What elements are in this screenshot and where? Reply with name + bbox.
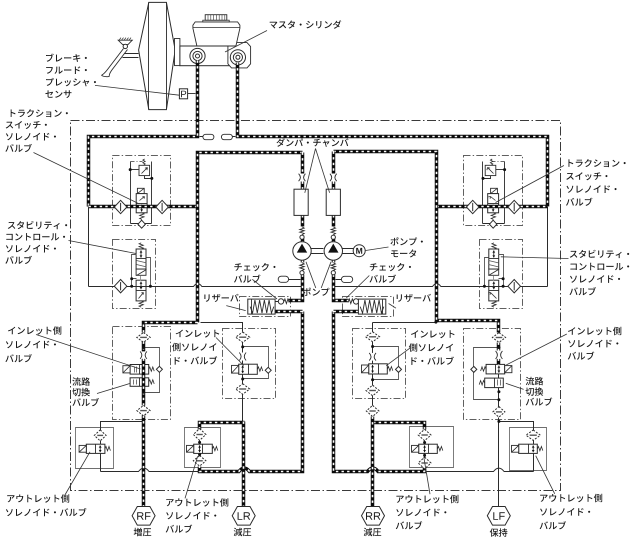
node: LR outlet links [198, 441, 201, 444]
label: inlet solenoid valve center left [176, 330, 219, 338]
outlet valve group box RF [76, 428, 114, 469]
check diamond below traction valve left [138, 220, 145, 228]
check valve right (spring and ball) [348, 299, 353, 304]
flow switching valve RF - body [130, 378, 149, 387]
orifice on left damper line [300, 174, 304, 182]
label: traction switch solenoid valve left [11, 109, 68, 117]
wire: RR outlet internal links [424, 441, 426, 458]
outlet valve group box RR [410, 427, 454, 468]
wheel port LF hexagon [487, 507, 510, 526]
label: check valve left [234, 263, 275, 271]
label: master cylinder [270, 20, 342, 29]
label: pump [303, 288, 330, 296]
outlet diamond RR upper [418, 429, 431, 440]
label: brake fluid pressure sensor [46, 54, 87, 62]
wire: RR inlet tap down to diamond [372, 323, 374, 332]
label: pump motor [391, 237, 423, 245]
master cylinder reservoir tank [193, 22, 240, 46]
label: flow switching valve left [72, 377, 90, 385]
reservoir outer box right [343, 297, 394, 317]
pressure line: RF branch from rail corner [144, 323, 198, 333]
check valve left (ball and spring) [278, 299, 283, 304]
inlet solenoid valve RR - body [369, 364, 388, 374]
wire: LR inlet tap from rail [201, 323, 243, 332]
wheel port LR hexagon [232, 507, 255, 526]
inlet filter diamond RR [366, 332, 380, 342]
spring below left pump [300, 263, 304, 271]
damper capsule 1 [203, 134, 214, 139]
stability control valve group box right [480, 240, 523, 309]
inlet valve group box RF [113, 327, 171, 420]
label: reservoir right [397, 294, 431, 302]
label: LF pressure hold [490, 528, 508, 537]
label: inlet solenoid valve center right [411, 330, 455, 338]
label: flow switching valve right [526, 377, 544, 385]
bypass check diamond LR [265, 367, 271, 373]
reservoir filler cap [203, 20, 229, 22]
wire: RF outlet tap [101, 422, 144, 472]
wire: pump to motor coupling shafts [311, 249, 354, 254]
bypass check diamond RR [396, 366, 402, 372]
pressure line: right damper chamber column [332, 152, 336, 174]
inlet valve group box LF [464, 329, 521, 420]
label: traction switch solenoid valve right [568, 159, 625, 167]
orifice on LF inlet line [497, 351, 501, 359]
traction switch solenoid valve right - body and relief valve [483, 162, 505, 224]
node: RR outlet links [423, 441, 426, 444]
master cylinder right end cap [228, 43, 251, 68]
pump motor M [353, 245, 365, 257]
inlet valve RR bypass line [373, 347, 399, 380]
master cylinder primary outlet port [190, 48, 205, 63]
spring below right damper chamber [331, 227, 335, 235]
bottom diamond RR upper [366, 385, 379, 396]
pressure line: left damper to pump [301, 182, 305, 243]
brake booster body [139, 2, 176, 109]
outlet valve group box LF [510, 428, 547, 471]
bottom diamond RF [137, 405, 150, 416]
wire: bottom return left thin segment (hop over RF line) [101, 468, 200, 471]
brake pedal pad with hatching [119, 40, 133, 42]
filter diamond traction row right outer [508, 200, 521, 213]
outlet solenoid valve LF - body [519, 444, 538, 453]
inlet valve group box RR [353, 329, 406, 399]
orifice on right damper line [331, 174, 335, 182]
outlet solenoid valve RR - body [419, 444, 438, 453]
wire: LF outlet tap [499, 422, 534, 472]
pressure line: traction row left [89, 205, 198, 209]
wire: LR bottom diamond down to wheel branch [242, 395, 244, 422]
inlet solenoid valve RF - body [130, 365, 149, 375]
wire: damper capsule stubs top [200, 136, 236, 138]
inlet valve RF bypass line [144, 348, 160, 393]
inlet solenoid valve LR - body [239, 364, 258, 374]
traction switch valve group box left [113, 156, 171, 226]
wire: right feed from traction row down to stability row [547, 207, 549, 287]
node: stability left pilot and row [130, 277, 133, 280]
label: stability control solenoid valve right [570, 250, 629, 258]
node: LF flow valve junctions [497, 390, 500, 393]
pressure line: LR wheel line down to port [242, 422, 246, 507]
traction switch solenoid valve left - body and relief valve [131, 162, 152, 224]
damper chamber left [294, 189, 308, 215]
wire: LF below flow valve to bottom diamond [498, 388, 500, 407]
pressure line: left return to reservoir and outlet rail (hop over LR wheel line) [200, 312, 303, 472]
filter diamond traction row left inner [156, 200, 169, 213]
pressure line: LF inlet column to closed valve [497, 343, 501, 365]
node: RF inlet bypass bottom [142, 391, 145, 394]
node: RF inlet bypass top [142, 346, 145, 349]
flow switching valve LF - body [485, 378, 504, 388]
spring below left damper chamber [300, 227, 304, 235]
wire: RR inlet tap from rail [373, 322, 437, 324]
wire: stability row left to pump suction (hop over pressure rail) [89, 284, 303, 287]
pressure line: reservoir left bottom stub [275, 310, 303, 314]
wire: LR outlet internal links [199, 441, 201, 456]
node: LR inlet bypass bottom [241, 378, 244, 381]
filter diamond traction row right inner [466, 200, 479, 213]
wire: left feed from traction row down to stability row [88, 207, 90, 287]
label: check valve right [370, 263, 411, 271]
outlet valve group box LR [185, 428, 221, 468]
pressure line: MC primary port down, left, down to traction row [89, 61, 198, 207]
label: inlet solenoid valve far right [568, 327, 621, 335]
node: RR inlet bypass bottom [371, 378, 374, 381]
pump right [324, 242, 342, 260]
pressure line: RR wheel line down to port [371, 417, 375, 507]
pressure line: left pump suction [289, 261, 303, 301]
booster push rod [123, 54, 139, 58]
label: reservoir left [204, 294, 238, 302]
bypass check diamond LF [471, 366, 477, 372]
ball below left pump [300, 271, 304, 275]
wheel port RF hexagon [132, 507, 155, 526]
wire: LR valve to bottom diamond [242, 375, 244, 384]
inlet valve group box LR [223, 329, 276, 399]
node: RR tap at rail corner [434, 321, 437, 324]
node: RR inlet bypass top [371, 345, 374, 348]
pressure sensor P box [179, 89, 187, 99]
pressure line: right rail and LF feed corner [334, 152, 499, 333]
node: LR inlet bypass top [241, 345, 244, 348]
stability control solenoid valve left - body [136, 249, 146, 269]
wire: reservoir to check ball links [276, 301, 359, 303]
wire: suction capsule stubs [289, 279, 342, 281]
filter diamond traction row left outer [114, 200, 127, 213]
bottom diamond RR lower [366, 405, 379, 416]
inlet solenoid valve LF - body [486, 364, 505, 374]
label: damper chamber [277, 138, 349, 147]
inlet filter diamond RF [137, 333, 150, 343]
ball below right pump [331, 271, 335, 275]
node: LF inlet bypass top [497, 346, 500, 349]
filter diamond stability right [508, 280, 521, 293]
node: stability right pilot and row [502, 277, 505, 280]
inlet valve LF bypass line [474, 348, 499, 400]
ball above left pump [300, 235, 304, 239]
pressure line: right return to reservoir and outlet rail (hop over RR wheel line) [334, 312, 425, 472]
hydraulic unit boundary (dash-dot box) [71, 121, 561, 491]
label: outlet solenoid valve center right [396, 495, 458, 503]
outlet solenoid valve RF - body [86, 444, 105, 453]
label: outlet solenoid valve far left [7, 494, 69, 502]
wire: RR diamond to valve [372, 342, 374, 364]
inlet filter diamond LR [236, 332, 250, 342]
label: outlet solenoid valve center left [166, 498, 228, 506]
pressure line: LR outlet top nub and branch to wheel line [200, 423, 245, 430]
ball above right pump [331, 235, 335, 239]
stability control valve group box left [113, 240, 156, 309]
outlet solenoid valve LR - body [194, 444, 213, 453]
reservoir left (spring box) [248, 299, 275, 314]
inlet filter diamond LF [492, 333, 505, 343]
pressure line: left rail (junction up to damper feed corner, down to inlet corner) [198, 153, 303, 323]
pressure line: right pump suction [334, 261, 349, 301]
pressure line: right damper to pump [332, 182, 336, 243]
booster output rod plate [175, 39, 180, 66]
stability control solenoid valve right - body [489, 249, 499, 269]
node: LF outlet tap [497, 420, 500, 423]
suction capsule right [341, 276, 352, 282]
label: outlet solenoid valve far right [540, 494, 602, 502]
brake pedal arm [101, 49, 127, 77]
wire: RR valve down to bottom diamonds [372, 375, 374, 406]
reservoir right (spring box) [358, 299, 385, 314]
pressure line: MC secondary port down, right, down to traction row [238, 63, 548, 207]
pump left [293, 242, 311, 260]
damper chamber right [326, 189, 340, 215]
pressure line: RF inlet column through valves [142, 342, 146, 406]
orifice on LR inlet line [241, 353, 245, 361]
damper capsule 2 [221, 134, 232, 139]
pressure line: left damper chamber column [301, 153, 305, 174]
suction capsule left [278, 276, 288, 282]
wire: LF below inlet valve to flow switching valve [498, 374, 500, 379]
bottom diamond LR [236, 384, 250, 395]
wheel port RR hexagon [362, 507, 385, 526]
label: RR pressure decrease [364, 528, 382, 537]
pressure line: reservoir right bottom stub [334, 310, 361, 314]
pressure line: RF wheel line down to port [142, 416, 146, 507]
outlet diamond RR lower [418, 457, 431, 469]
label: LR pressure decrease [234, 528, 252, 537]
outlet diamond LR lower [193, 456, 206, 467]
pressure line: RR outlet top nub and branch to wheel line [373, 423, 425, 430]
outlet diamond LR upper [193, 429, 206, 441]
inlet valve LR bypass line [243, 347, 269, 379]
filter diamond stability left [114, 280, 127, 293]
bottom diamond LF [493, 407, 505, 418]
label: RF pressure increase [134, 528, 152, 537]
outlet diamond RF [94, 430, 106, 441]
master cylinder secondary outlet port [230, 50, 245, 65]
wire: LF bottom diamond down to wheel port [498, 418, 500, 507]
master cylinder body [180, 46, 249, 66]
pressure line: traction row right [437, 205, 548, 209]
wire: stability row right to pump suction (hop over pressure rail) [334, 284, 548, 287]
spring below right pump [331, 263, 335, 271]
wire: LR inlet diamond to valve [242, 343, 244, 365]
check diamond below traction valve right [489, 220, 496, 228]
wire: bottom return right thin segment (hop over LF line) [427, 468, 534, 471]
traction switch valve group box right [464, 156, 523, 226]
outlet diamond LF [526, 430, 540, 440]
label: stability control solenoid valve left [8, 221, 67, 229]
orifice on RR inlet line [370, 353, 374, 361]
reservoir outer box left [240, 297, 291, 317]
orifice on RF inlet line [141, 351, 145, 358]
bypass check diamond RF [156, 366, 162, 372]
label: inlet solenoid valve far left [8, 326, 61, 334]
